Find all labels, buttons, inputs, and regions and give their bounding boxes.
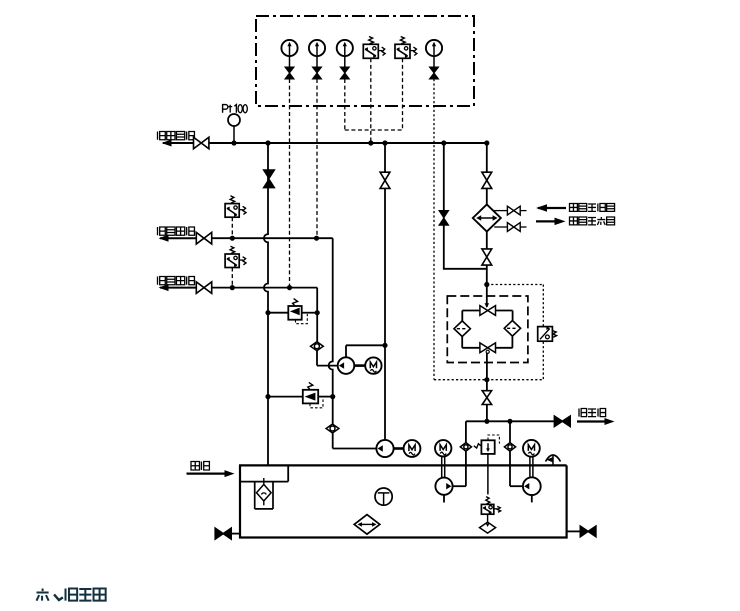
filter outlet pipe down (486, 353, 488, 391)
differential pressure switch dPS body (538, 327, 553, 342)
RV3 drain stub into tank (487, 454, 489, 495)
HP1 supply arrow (160, 237, 196, 239)
pump P4 suction stub (531, 495, 533, 502)
check/stop valve V2 on return riser (filled) (263, 170, 275, 188)
pump P2 inlet run (333, 448, 377, 450)
filter outlet manifold (462, 347, 480, 349)
RV1 spring (293, 299, 298, 306)
node: P1 suction tap on riser (382, 343, 387, 348)
pressure switch PS2 (395, 44, 410, 58)
level gauge LG (diamond with arrows) (366, 514, 368, 534)
pump P2 (376, 440, 393, 457)
RV1 pilot line (dashed) (296, 314, 308, 324)
motor M2 (404, 440, 421, 457)
RV1 outlet line (302, 312, 318, 314)
riser shutoff valve V5 (hollow) (380, 172, 390, 188)
switch PS3 sensing line (dashed) (231, 217, 233, 238)
return filter element (diamond) (263, 478, 265, 505)
HP1 discharge drop pipe x=332.7 (329, 238, 333, 448)
RV3 pilot line (dashed) (488, 435, 499, 444)
switch PS1 sensing line (dashed) to main header (370, 58, 372, 143)
cooler branch pipe (486, 143, 488, 205)
label: gong di ya you (supply LP oil) (158, 132, 166, 140)
HP line 2 pipe (212, 287, 318, 289)
node: filter line tap (484, 419, 489, 424)
node: RV2 tap on HP1 drop (330, 394, 335, 399)
cooler outlet valve V10 (hollow) (482, 249, 492, 265)
gauge PI1 sensing line (dashed) to HP line 2 (289, 79, 291, 288)
pump P4 (submerged) (523, 477, 541, 495)
cooler inlet valve V7 (hollow) (482, 172, 492, 188)
switch PS4 sensing line (dashed) (231, 268, 233, 288)
label: leng que shui chu kou (cooling water outlet) (570, 217, 578, 225)
pump P4 discharge pipe (509, 421, 511, 442)
tank top plate (239, 464, 567, 466)
node: relief RV2 return tap (265, 394, 270, 399)
return oil arrow (187, 473, 227, 475)
node: PI2 tap on HP1 (314, 236, 319, 241)
LS float (diamond) (480, 522, 496, 533)
label: hui you (return oil) (191, 462, 199, 470)
bypass drop pipe (443, 143, 445, 269)
cooler outlet pipe (486, 232, 488, 250)
node: relief RV1 return tap (265, 310, 270, 315)
circulation relief valve RV3 body (481, 440, 494, 454)
filter drain valve V13 (hollow) (482, 391, 491, 405)
filter inlet manifold (462, 310, 480, 312)
label: leng que shui ru kou (cooling water inlet) (570, 204, 578, 212)
suction riser pipe from header to P2 (384, 143, 386, 440)
Pt100 temperature sensor (233, 126, 235, 143)
gauge PI2 sensing line (dashed) to HP line 1 (316, 79, 318, 238)
pump P1 suction from riser (345, 345, 347, 357)
tank drain valve left (filled) (231, 533, 240, 535)
node: Pt100 tap (231, 140, 236, 145)
node: enclosure bottom crossing (484, 377, 489, 382)
filter F1 (454, 321, 470, 337)
changeover valve V12 (bottom, bowtie) (480, 343, 496, 353)
caption: liu, yi biao pan (6. instrument panel) (37, 589, 49, 601)
pressure switch PS4 (225, 254, 239, 268)
filter F1 branch pipe (461, 311, 463, 323)
return riser pipe (with hops over HP lines) (264, 143, 268, 465)
gauge PI4 sensing line (fine dotted) down to filter enclosure (433, 79, 435, 380)
pressure switch PS1 (363, 44, 378, 58)
label: gong gao ya you (supply HP oil) #1 (158, 227, 166, 235)
main header pipe (209, 142, 487, 144)
level switch LS body (481, 504, 493, 514)
oil tank shell (240, 465, 567, 537)
dashed tie line joining PI3 and PS2 sensing lines (345, 129, 403, 131)
gauge PI3 sensing line (dashed) (344, 79, 346, 130)
cooling water pipe upper (494, 210, 507, 212)
motor M3 shaft (double line) (441, 457, 443, 478)
check valve CV4 (504, 443, 515, 452)
motor M1 (365, 357, 381, 373)
pump P1 discharge run (317, 365, 338, 367)
oil cooler E1 (diamond with arrow) (473, 204, 501, 231)
node: bypass branch tap (441, 140, 446, 145)
label: gong gao ya you (supply HP oil) #2 (158, 277, 166, 285)
pressure switch PS3 (225, 204, 239, 218)
check valve CV3 (460, 443, 471, 452)
motor M3 (435, 440, 451, 456)
RV2 spring (308, 382, 313, 389)
motor M4 (523, 440, 540, 457)
node: PI1 tap on HP2 (287, 285, 292, 290)
cooling water valve V9 (507, 223, 520, 232)
node: pump riser tap (382, 140, 387, 145)
pump P3 discharge pipe (465, 421, 467, 442)
pressure gauge PI3 (337, 40, 353, 56)
cooling water pipe lower (494, 226, 507, 228)
pump P3 (submerged) (435, 478, 452, 495)
node: return riser tap (265, 140, 270, 145)
HP1 shutoff valve V3 (196, 232, 211, 244)
node: PS3 tap on HP1 (230, 236, 235, 241)
node: RV1 tap on HP2 drop (315, 310, 320, 315)
relief valve RV1 inlet line (268, 312, 288, 314)
thermometer TI (375, 488, 392, 505)
LS stem (487, 514, 489, 523)
filter F2 branch pipe (512, 311, 514, 322)
node: cooler branch tap (484, 140, 489, 145)
RV3 spring (left) (474, 444, 481, 448)
filter group enclosure (fine dotted) (434, 379, 543, 381)
duplex filter inner boundary (dashed box) (447, 296, 528, 363)
motor M2 shaft (394, 447, 404, 450)
RV2 pilot line (dashed) (310, 398, 323, 408)
filter F2 (504, 321, 520, 337)
relief valve RV2 body (303, 390, 318, 404)
LP supply arrow (163, 142, 194, 144)
check valve CV2 (326, 424, 339, 433)
sludge drain valve V14 (filled) (554, 416, 570, 426)
drain arrow (577, 420, 606, 422)
LP supply shutoff valve V1 (194, 137, 209, 149)
cooling water inlet arrow (538, 207, 566, 209)
label: pai wu you (drain oil) (579, 409, 587, 417)
bypass bottom run to cooler outlet (443, 268, 487, 270)
node: P4 discharge tap (507, 419, 512, 424)
motor M4 shaft (double line) (529, 457, 531, 478)
HP2 shutoff valve V4 (196, 282, 211, 294)
bypass stop valve V6 (filled) (439, 211, 449, 226)
pump P1 (338, 357, 355, 374)
node: PS4 tap on HP2 (230, 285, 235, 290)
pump P3 suction stub (443, 495, 445, 503)
cooling water valve V8 (507, 206, 520, 215)
pressure gauge PI1 (281, 40, 297, 56)
pressure gauge PI2 (309, 40, 325, 56)
HP2 discharge drop pipe x=317 (316, 288, 318, 342)
relief valve RV2 inlet line (268, 396, 303, 398)
return chamber box (240, 481, 288, 483)
pressure gauge PI4 (426, 40, 442, 56)
tank drain valve right (filled) (567, 530, 581, 532)
inlet arrowhead into changeover valve (485, 303, 490, 308)
air breather on tank top (546, 455, 561, 462)
RV2 outlet line (318, 396, 333, 398)
check valve CV1 (311, 342, 324, 351)
cooling water outlet arrow (536, 220, 556, 222)
node: enclosure top crossing (484, 282, 489, 287)
changeover valve V11 (top, bowtie) (480, 306, 496, 316)
HP line 1 pipe (212, 237, 333, 239)
dPS spring (553, 331, 557, 338)
instrument panel enclosure (dash-dot box) (256, 16, 474, 106)
HP2 supply arrow (160, 287, 196, 289)
relief valve RV1 body (288, 306, 301, 320)
motor M1 shaft (354, 364, 365, 367)
node: PS1 tap (368, 140, 373, 145)
switch PS2 sensing line (dashed) (402, 58, 404, 130)
circulating header (466, 420, 555, 422)
return filter housing (254, 482, 256, 509)
